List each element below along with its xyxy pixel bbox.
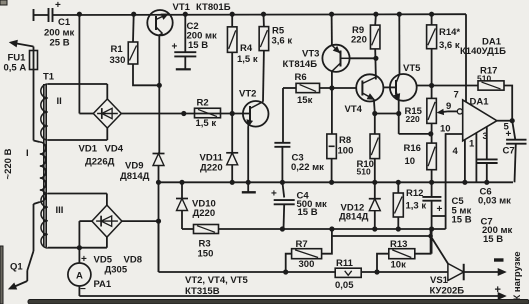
svg-text:1,3 к: 1,3 к (406, 201, 427, 212)
svg-text:VD1: VD1 (79, 144, 98, 155)
svg-text:10: 10 (440, 124, 451, 135)
svg-text:Д226Д: Д226Д (85, 157, 115, 168)
svg-text:КТ814Б: КТ814Б (283, 59, 318, 70)
svg-text:9: 9 (446, 101, 451, 112)
svg-text:VD4: VD4 (105, 144, 124, 155)
svg-text:I: I (26, 148, 29, 159)
svg-text:7: 7 (454, 90, 459, 101)
svg-text:R1: R1 (111, 44, 124, 55)
svg-text:15 В: 15 В (298, 207, 318, 218)
svg-text:R16: R16 (404, 143, 421, 154)
svg-text:15к: 15к (297, 95, 313, 106)
svg-text:К нагрузке: К нагрузке (512, 251, 523, 300)
svg-text:+: + (55, 0, 61, 11)
svg-text:15 В: 15 В (188, 40, 208, 51)
svg-text:R2: R2 (197, 98, 209, 109)
svg-text:25 В: 25 В (50, 38, 70, 49)
svg-text:КТ801Б: КТ801Б (196, 2, 231, 13)
svg-text:VD9: VD9 (125, 161, 143, 172)
svg-text:С7: С7 (503, 146, 515, 157)
svg-text:0,22 мк: 0,22 мк (291, 162, 324, 173)
svg-text:300: 300 (299, 259, 315, 270)
svg-text:VT2: VT2 (239, 89, 256, 100)
svg-text:VT3: VT3 (302, 49, 319, 60)
svg-text:R11: R11 (336, 258, 354, 269)
svg-text:~220 В: ~220 В (3, 148, 14, 179)
svg-text:C1: C1 (58, 17, 71, 28)
svg-text:Д220: Д220 (193, 208, 216, 219)
svg-text:3,6 к: 3,6 к (272, 36, 293, 47)
svg-text:Д814Д: Д814Д (120, 171, 150, 182)
svg-text:А: А (76, 271, 83, 282)
svg-text:VT2, VT4, VT5: VT2, VT4, VT5 (185, 275, 249, 286)
svg-text:R12: R12 (406, 188, 423, 199)
svg-text:К140УД1Б: К140УД1Б (460, 46, 506, 57)
svg-text:КУ202Б: КУ202Б (430, 286, 465, 297)
svg-text:R8: R8 (339, 135, 351, 146)
svg-text:15 В: 15 В (452, 215, 472, 226)
svg-text:VT1: VT1 (173, 2, 191, 13)
svg-text:10к: 10к (391, 260, 407, 271)
svg-text:R4: R4 (240, 43, 253, 54)
svg-text:510: 510 (477, 74, 491, 84)
svg-text:R13: R13 (390, 239, 407, 250)
svg-text:510: 510 (357, 167, 371, 177)
svg-text:III: III (56, 205, 64, 216)
svg-text:0,5 А: 0,5 А (4, 63, 27, 74)
svg-text:Д220: Д220 (200, 163, 223, 174)
svg-text:100: 100 (338, 146, 354, 157)
svg-text:+: + (271, 189, 277, 200)
svg-text:220: 220 (406, 114, 420, 124)
svg-text:0,05: 0,05 (335, 280, 354, 291)
svg-text:3: 3 (483, 131, 488, 142)
svg-text:Т1: Т1 (43, 72, 55, 83)
svg-text:15 В: 15 В (483, 234, 503, 245)
svg-text:DA1: DA1 (470, 96, 490, 107)
svg-text:Д305: Д305 (105, 265, 128, 276)
svg-text:Q1: Q1 (10, 262, 23, 273)
svg-text:10: 10 (405, 156, 416, 167)
svg-text:1,5 к: 1,5 к (237, 54, 258, 65)
svg-text:330: 330 (110, 55, 126, 66)
svg-text:R7: R7 (296, 239, 308, 250)
svg-text:+: + (81, 254, 87, 265)
svg-text:+: + (506, 129, 512, 140)
svg-text:0,03 мк: 0,03 мк (478, 196, 511, 207)
svg-text:R14*: R14* (439, 27, 460, 38)
svg-text:−: − (80, 284, 86, 295)
svg-text:4: 4 (453, 146, 459, 157)
svg-text:+: + (495, 284, 501, 296)
svg-text:Д814Д: Д814Д (339, 211, 369, 222)
svg-text:VT4: VT4 (345, 104, 363, 115)
svg-text:1,5 к: 1,5 к (196, 118, 217, 129)
svg-text:1: 1 (469, 139, 475, 150)
svg-text:VS1: VS1 (430, 275, 449, 286)
svg-text:РА1: РА1 (94, 279, 112, 290)
svg-text:R6: R6 (295, 72, 307, 83)
svg-text:150: 150 (198, 249, 214, 260)
svg-text:+: + (437, 204, 443, 215)
svg-text:220: 220 (351, 35, 367, 46)
svg-text:II: II (57, 96, 62, 107)
svg-text:VT5: VT5 (403, 63, 421, 74)
svg-text:3,6 к: 3,6 к (439, 40, 460, 51)
svg-text:+: + (172, 42, 178, 53)
